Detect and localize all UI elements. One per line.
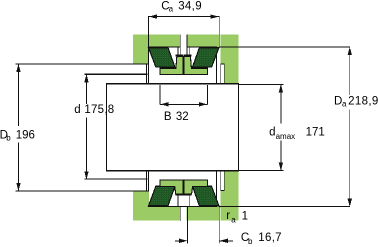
svg-text:a: a	[342, 100, 347, 109]
svg-text:b: b	[248, 237, 253, 246]
svg-text:196: 196	[16, 129, 35, 141]
svg-text:a: a	[231, 216, 236, 225]
svg-text:b: b	[6, 133, 11, 142]
svg-text:218,9: 218,9	[348, 95, 378, 107]
svg-text:d: d	[269, 126, 275, 138]
svg-text:d: d	[74, 104, 80, 116]
svg-text:16,7: 16,7	[258, 232, 282, 244]
svg-text:175,8: 175,8	[84, 104, 114, 116]
svg-text:B: B	[164, 111, 172, 123]
svg-text:1: 1	[242, 211, 248, 223]
svg-text:r: r	[226, 210, 230, 222]
svg-text:amax: amax	[276, 132, 296, 141]
svg-text:171: 171	[306, 126, 325, 138]
svg-text:32: 32	[176, 111, 189, 123]
svg-text:34,9: 34,9	[178, 1, 202, 13]
svg-text:a: a	[169, 5, 174, 14]
